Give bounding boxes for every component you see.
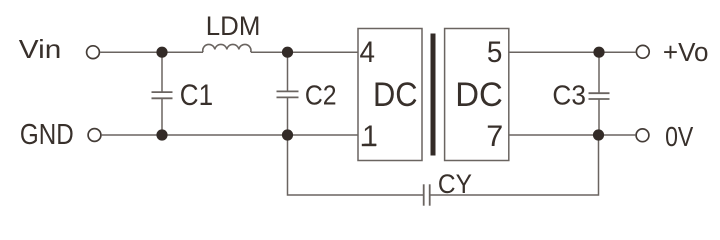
svg-text:DC: DC xyxy=(455,76,503,114)
svg-text:GND: GND xyxy=(20,119,74,151)
svg-text:4: 4 xyxy=(360,36,376,69)
svg-text:C2: C2 xyxy=(305,79,337,110)
svg-text:DC: DC xyxy=(373,76,418,114)
svg-text:1: 1 xyxy=(362,120,378,153)
svg-text:Vin: Vin xyxy=(19,34,62,64)
svg-text:5: 5 xyxy=(487,36,503,69)
svg-text:LDM: LDM xyxy=(206,11,261,41)
svg-text:0V: 0V xyxy=(665,121,694,152)
svg-text:7: 7 xyxy=(486,120,503,153)
svg-text:+Vo: +Vo xyxy=(663,39,709,67)
svg-text:CY: CY xyxy=(438,169,472,199)
svg-text:C1: C1 xyxy=(180,79,213,112)
svg-text:C3: C3 xyxy=(552,79,586,110)
